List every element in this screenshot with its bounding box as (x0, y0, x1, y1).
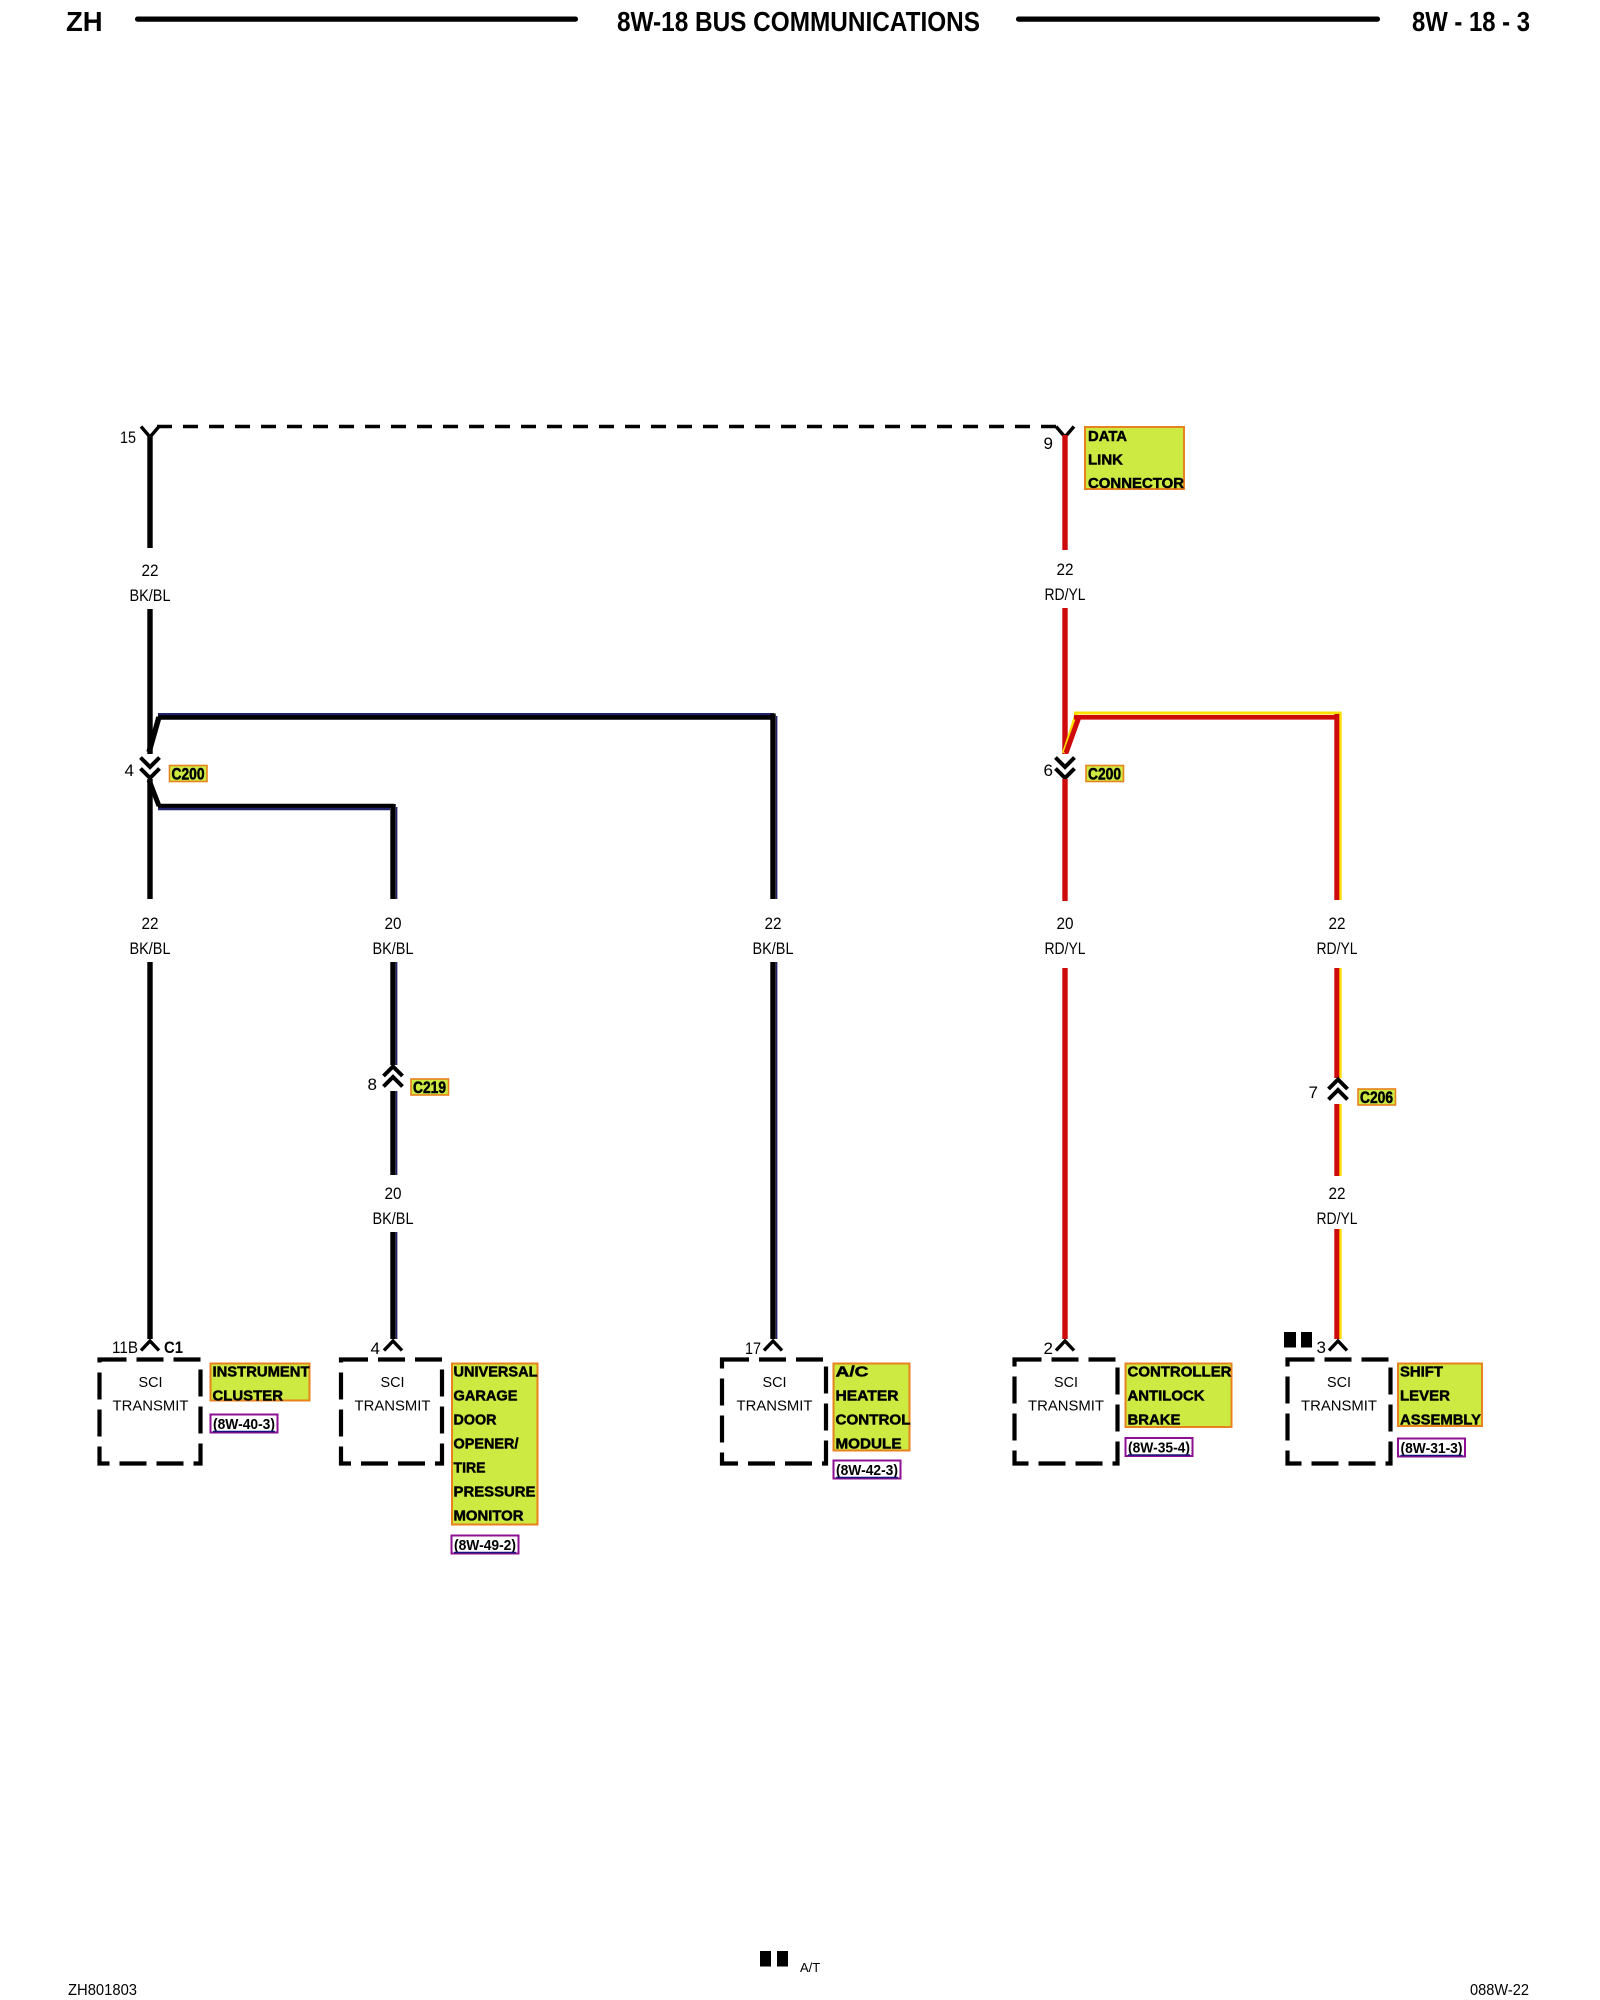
svg-text:(8W-35-4): (8W-35-4) (1128, 1440, 1190, 1457)
wire color RD/YL (col5 break3) (1317, 1209, 1358, 1228)
legend A/T text (800, 1960, 820, 1975)
node: DATA LINK CONNECTOR label (1085, 427, 1185, 492)
svg-text:CONNECTOR: CONNECTOR (1088, 476, 1185, 492)
svg-text:11B: 11B (112, 1338, 138, 1357)
svg-text:RD/YL: RD/YL (1317, 1209, 1358, 1228)
svg-text:6: 6 (1044, 761, 1053, 780)
wire gauge 20 (col2 break3) (385, 1184, 402, 1203)
reference label (8W-35-4) (1126, 1438, 1193, 1457)
connector pin 9 symbol (1056, 427, 1074, 438)
svg-text:20: 20 (385, 914, 402, 933)
wire BK/BL column 1 bottom run (147, 962, 152, 1339)
connector symbol above box 2 (pin 4) (384, 1341, 402, 1351)
header page number (1412, 6, 1530, 37)
wire color RD/YL (col5 break2) (1317, 939, 1358, 958)
component box 4: SCI TRANSMIT (controller antilock brake) (1015, 1360, 1118, 1464)
wire BK/BL column 1 mid (147, 609, 152, 754)
connector C206 chevrons (pin 7) (1329, 1080, 1348, 1100)
wire gauge 22 (col4 break1) (1057, 560, 1074, 579)
svg-text:2: 2 (1044, 1339, 1053, 1358)
svg-text:17: 17 (745, 1339, 761, 1358)
connector label C200 (right) (1086, 766, 1124, 784)
reference label (8W-42-3) (834, 1461, 901, 1480)
wire gauge 20 (col2 break2) (385, 914, 402, 933)
wire BK/BL column 1 upper (147, 435, 152, 548)
svg-text:A/C: A/C (836, 1365, 870, 1381)
pin label 6 (C200 right) (1044, 761, 1053, 780)
pin label 3 (1317, 1338, 1326, 1357)
wire RD/YL column 5 lower (1337, 1104, 1341, 1176)
svg-text:TRANSMIT: TRANSMIT (737, 1398, 813, 1415)
wire color BK/BL (col2 break2) (373, 939, 414, 958)
wire BK/BL column 2 upper (393, 804, 397, 899)
svg-text:MODULE: MODULE (836, 1437, 902, 1453)
connector symbol above box 3 (pin 17) (764, 1341, 782, 1351)
pin label 11B (112, 1338, 138, 1357)
svg-text:TRANSMIT: TRANSMIT (1301, 1398, 1377, 1415)
svg-text:RD/YL: RD/YL (1317, 939, 1358, 958)
svg-text:HEATER: HEATER (836, 1389, 900, 1405)
svg-text:LINK: LINK (1088, 453, 1124, 469)
svg-text:22: 22 (142, 914, 159, 933)
svg-text:C200: C200 (172, 766, 205, 784)
connector pin 15 symbol (141, 427, 159, 438)
wire RD/YL column 5 upper (1337, 712, 1341, 900)
wire BK/BL column 2 bottom run (393, 1232, 397, 1339)
svg-text:SCI: SCI (381, 1374, 405, 1391)
svg-text:BK/BL: BK/BL (753, 939, 794, 958)
wire gauge 22 (col3 break2) (765, 914, 782, 933)
svg-text:3: 3 (1317, 1338, 1326, 1357)
wire color BK/BL (col3 break2) (753, 939, 794, 958)
footer sheet code left (68, 1982, 137, 1999)
header title (617, 6, 980, 37)
svg-text:ZH801803: ZH801803 (68, 1982, 137, 1999)
legend A/T marker squares (760, 1951, 788, 1967)
connector symbol above box 1 (pin 11B C1) (141, 1341, 159, 1351)
svg-text:22: 22 (1329, 1184, 1346, 1203)
wire gauge 20 (col4 break2) (1057, 914, 1074, 933)
svg-text:MONITOR: MONITOR (454, 1509, 525, 1525)
wire color BK/BL (col2 break3) (373, 1209, 414, 1228)
pin label 2 (1044, 1339, 1053, 1358)
svg-text:UNIVERSAL: UNIVERSAL (454, 1365, 538, 1381)
svg-text:8W - 18 - 3: 8W - 18 - 3 (1412, 6, 1530, 37)
svg-text:A/T: A/T (800, 1960, 820, 1975)
wire branch to col2 (BK/BL) (149, 780, 394, 809)
svg-text:TRANSMIT: TRANSMIT (1028, 1398, 1104, 1415)
wire color BK/BL (col1 break2) (130, 939, 171, 958)
wire branch to col3 (BK/BL) (149, 714, 776, 752)
wire RD/YL column 4 lower (1062, 779, 1067, 901)
svg-text:22: 22 (142, 561, 159, 580)
wire gauge 22 (col1 break1) (142, 561, 159, 580)
svg-text:SHIFT: SHIFT (1400, 1365, 1443, 1381)
wire BK/BL column 1 lower (147, 779, 152, 899)
footer sheet code right (1470, 1982, 1529, 1999)
wire BK/BL column 2 mid (393, 962, 397, 1065)
svg-text:DOOR: DOOR (454, 1413, 498, 1429)
node label: INSTRUMENT CLUSTER (211, 1364, 310, 1405)
component box 1: SCI TRANSMIT (instrument cluster) (100, 1360, 201, 1464)
connector label C206 (1358, 1089, 1396, 1107)
wire RD/YL column 4 bottom run (1062, 968, 1067, 1339)
svg-text:SCI: SCI (139, 1374, 163, 1391)
connector symbol above box 4 (pin 2) (1056, 1341, 1074, 1351)
svg-text:4: 4 (125, 761, 134, 780)
reference label (8W-40-3) (211, 1415, 278, 1434)
header rule left (135, 17, 578, 22)
svg-text:(8W-40-3): (8W-40-3) (213, 1416, 275, 1433)
svg-text:ZH: ZH (66, 6, 103, 37)
svg-text:CONTROLLER: CONTROLLER (1128, 1365, 1233, 1381)
wire gauge 22 (col1 break2) (142, 914, 159, 933)
svg-text:C1: C1 (164, 1338, 183, 1357)
component box 3: SCI TRANSMIT (A/C heater control) (722, 1360, 826, 1464)
header rule right (1016, 17, 1380, 22)
svg-text:22: 22 (1057, 560, 1074, 579)
pin label 4 (box2) (371, 1339, 380, 1358)
node label: A/C HEATER CONTROL MODULE (834, 1364, 911, 1453)
svg-text:SCI: SCI (1054, 1374, 1078, 1391)
svg-text:INSTRUMENT: INSTRUMENT (213, 1365, 310, 1381)
pin label 15 (120, 428, 136, 447)
pin label 7 (1309, 1083, 1318, 1102)
svg-text:ANTILOCK: ANTILOCK (1128, 1389, 1206, 1405)
component box 2: SCI TRANSMIT (garage door opener) (341, 1360, 442, 1464)
wire RD/YL column 5 mid (1337, 968, 1341, 1078)
svg-text:OPENER/: OPENER/ (454, 1437, 519, 1453)
svg-text:(8W-49-2): (8W-49-2) (454, 1537, 516, 1554)
svg-text:22: 22 (1329, 914, 1346, 933)
svg-text:4: 4 (371, 1339, 380, 1358)
svg-text:9: 9 (1044, 434, 1053, 453)
svg-text:TIRE: TIRE (454, 1461, 486, 1477)
wire BK/BL column 2 lower (393, 1091, 397, 1175)
svg-text:PRESSURE: PRESSURE (454, 1485, 536, 1501)
pin label 17 (745, 1339, 761, 1358)
svg-text:GARAGE: GARAGE (454, 1389, 518, 1405)
connector C219 chevrons (pin 8) (384, 1067, 403, 1087)
svg-text:BK/BL: BK/BL (373, 939, 414, 958)
svg-text:TRANSMIT: TRANSMIT (355, 1398, 431, 1415)
A/T option marker squares (box 5) (1284, 1332, 1312, 1348)
connector label C200 (left) (170, 766, 208, 784)
svg-text:TRANSMIT: TRANSMIT (113, 1398, 189, 1415)
svg-text:C219: C219 (413, 1079, 446, 1097)
header label ZH (66, 6, 103, 37)
svg-text:CONTROL: CONTROL (836, 1413, 911, 1429)
connector label C219 (411, 1079, 449, 1097)
wire gauge 22 (col5 break3) (1329, 1184, 1346, 1203)
svg-text:SCI: SCI (1327, 1374, 1351, 1391)
svg-text:LEVER: LEVER (1400, 1389, 1451, 1405)
wire color RD/YL (col4 break2) (1045, 939, 1086, 958)
svg-text:BK/BL: BK/BL (130, 939, 171, 958)
dashed bus wire (top) (157, 425, 1065, 428)
node label: UNIVERSAL GARAGE DOOR OPENER / TIRE PRESSURE MONITOR (452, 1364, 538, 1525)
connector C200 chevrons (col1, pin 4) (141, 758, 160, 779)
svg-text:BK/BL: BK/BL (373, 1209, 414, 1228)
svg-text:(8W-31-3): (8W-31-3) (1401, 1440, 1463, 1457)
pin label 8 (368, 1075, 377, 1094)
svg-text:SCI: SCI (763, 1374, 787, 1391)
wire RD/YL column 4 upper (1062, 435, 1067, 550)
svg-text:RD/YL: RD/YL (1045, 939, 1086, 958)
wire BK/BL column 3 upper (773, 714, 777, 900)
svg-text:C206: C206 (1360, 1089, 1393, 1107)
wire BK/BL column 3 bottom run (773, 962, 777, 1339)
svg-text:22: 22 (765, 914, 782, 933)
node label: CONTROLLER ANTILOCK BRAKE (1126, 1364, 1233, 1429)
svg-text:BRAKE: BRAKE (1128, 1413, 1181, 1429)
reference label (8W-31-3) (1398, 1439, 1465, 1458)
wire RD/YL column 5 bottom run (1337, 1229, 1341, 1339)
connector C200 chevrons (col4, pin 6) (1056, 758, 1075, 779)
svg-text:CLUSTER: CLUSTER (213, 1389, 284, 1405)
node label: SHIFT LEVER ASSEMBLY (1398, 1364, 1482, 1429)
wire color RD/YL (col4 break1) (1045, 585, 1086, 604)
reference label (8W-49-2) (452, 1536, 519, 1555)
pin label 9 (1044, 434, 1053, 453)
connector name C1 (164, 1338, 183, 1357)
svg-text:(8W-42-3): (8W-42-3) (836, 1462, 898, 1479)
svg-text:20: 20 (1057, 914, 1074, 933)
svg-text:RD/YL: RD/YL (1045, 585, 1086, 604)
svg-text:8: 8 (368, 1075, 377, 1094)
svg-text:7: 7 (1309, 1083, 1318, 1102)
svg-text:C200: C200 (1088, 766, 1121, 784)
svg-text:15: 15 (120, 428, 136, 447)
svg-text:8W-18 BUS COMMUNICATIONS: 8W-18 BUS COMMUNICATIONS (617, 6, 980, 37)
component box 5: SCI TRANSMIT (shift lever assembly) (1288, 1360, 1391, 1464)
wire color BK/BL (col1 break1) (130, 586, 171, 605)
svg-text:088W-22: 088W-22 (1470, 1982, 1529, 1999)
wire RD/YL column 4 mid (1062, 608, 1067, 754)
wire gauge 22 (col5 break2) (1329, 914, 1346, 933)
svg-text:ASSEMBLY: ASSEMBLY (1400, 1413, 1481, 1429)
svg-text:DATA: DATA (1088, 429, 1128, 445)
wire branch to col5 (RD/YL) (1064, 713, 1342, 753)
connector symbol above box 5 (pin 3) (1329, 1341, 1347, 1351)
pin label 4 (C200 left) (125, 761, 134, 780)
svg-text:20: 20 (385, 1184, 402, 1203)
svg-text:BK/BL: BK/BL (130, 586, 171, 605)
